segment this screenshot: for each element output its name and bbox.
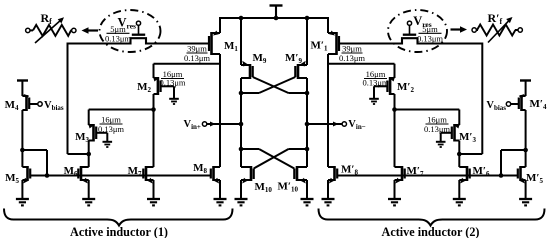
svg-text:39μm: 39μm <box>342 44 362 54</box>
svg-text:0.13μm: 0.13μm <box>98 124 124 134</box>
svg-text:Active inductor (1): Active inductor (1) <box>70 225 168 238</box>
svg-text:0.13μm: 0.13μm <box>424 124 450 134</box>
svg-text:0.13μm: 0.13μm <box>159 78 185 88</box>
svg-text:39μm: 39μm <box>187 44 207 54</box>
svg-text:0.13μm: 0.13μm <box>184 53 210 63</box>
svg-text:16μm: 16μm <box>101 115 121 125</box>
svg-text:0.13μm: 0.13μm <box>362 78 388 88</box>
svg-text:5μm: 5μm <box>422 24 438 34</box>
svg-text:0.13μm: 0.13μm <box>105 33 131 43</box>
svg-text:0.13μm: 0.13μm <box>339 53 365 63</box>
svg-text:5μm: 5μm <box>110 24 126 34</box>
svg-text:Active inductor (2): Active inductor (2) <box>382 225 480 238</box>
svg-text:0.13μm: 0.13μm <box>417 33 443 43</box>
svg-text:16μm: 16μm <box>427 115 447 125</box>
